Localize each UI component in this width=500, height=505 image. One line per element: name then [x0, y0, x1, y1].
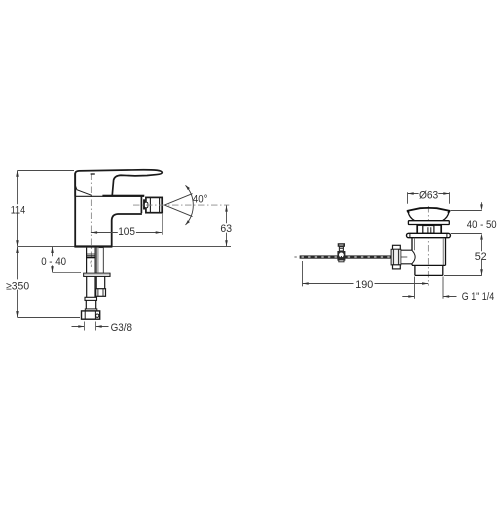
svg-text:40°: 40°: [193, 193, 208, 205]
aerator horizontal centerline: [133, 204, 229, 206]
dim 52 extension bottom: [444, 275, 482, 277]
dim 40-50 arrows: [481, 202, 483, 205]
lower tube left wall: [86, 276, 88, 297]
drain body bottom: [412, 264, 446, 266]
clamp slit: [340, 256, 342, 258]
spray fan upper line: [164, 194, 192, 206]
crown top line: [417, 224, 442, 226]
lower tube right wall: [94, 276, 96, 297]
flange 2: [407, 233, 451, 237]
dim 0-40 extension: [53, 272, 82, 274]
dim 190 extension left: [302, 261, 304, 286]
hex nut facet lines: [85, 311, 95, 319]
dim 0-40 line: [52, 247, 54, 272]
clamp body: [337, 251, 345, 261]
svg-text:0 - 40: 0 - 40: [41, 256, 66, 268]
drain nut body: [391, 249, 401, 264]
dim 114 line: [17, 171, 19, 247]
crown middle slit: [428, 227, 431, 233]
svg-text:G 1" 1/4: G 1" 1/4: [462, 291, 494, 303]
dim >=350 extension bottom: [18, 317, 81, 319]
dim 40-50 extension bottom: [451, 233, 482, 235]
drain body inner wall right: [442, 238, 444, 265]
svg-text:G3/8: G3/8: [111, 322, 132, 334]
port to body: [401, 250, 412, 264]
tube below collar left: [85, 300, 87, 309]
right hose below plate: [96, 276, 105, 288]
drain body inner wall left: [413, 238, 415, 250]
washer plate: [84, 273, 110, 276]
flange 1: [408, 221, 449, 225]
rod left centerline tick: [294, 256, 296, 258]
fitting facet lines: [98, 289, 103, 296]
plug cap top edge: [407, 208, 450, 211]
collar: [85, 297, 97, 300]
svg-text:190: 190: [355, 279, 373, 291]
dim 105 line: [91, 232, 162, 234]
rod: [300, 255, 392, 258]
spout underside: [112, 214, 142, 246]
aerator body: [146, 197, 162, 212]
svg-text:≥350: ≥350: [6, 280, 29, 292]
drain nut top cap: [393, 245, 401, 249]
right hose end fitting: [96, 289, 106, 297]
tail walls: [415, 265, 443, 275]
rod white dashes: [302, 256, 392, 258]
tube below collar right: [95, 300, 97, 309]
aerator ball joint: [144, 202, 148, 208]
drain nut bottom cap: [393, 265, 401, 269]
hose tube above plate: [96, 248, 103, 274]
body bottom thick: [74, 245, 112, 247]
body top line: [75, 195, 144, 197]
shank centerline dash: [90, 262, 92, 264]
step ring: [85, 309, 97, 311]
clamp neck: [339, 247, 343, 251]
deck line: [18, 246, 232, 248]
shank left wall: [86, 248, 88, 273]
plug cap left tip: [407, 210, 409, 213]
dim G3/8 arrows: [72, 326, 109, 328]
svg-text:105: 105: [118, 226, 135, 238]
crown left wall: [416, 225, 418, 234]
svg-text:40 - 50: 40 - 50: [467, 219, 497, 231]
drain centerline: [427, 206, 429, 286]
drain body right wall: [445, 238, 447, 265]
aerator inner line 1: [149, 198, 151, 213]
dim O63 line: [408, 193, 450, 195]
dim 40-50 extension top: [451, 210, 482, 212]
spray fan lower line: [164, 205, 192, 217]
hex nut hole: [96, 314, 99, 317]
aerator connector: [143, 199, 145, 209]
body left edge: [74, 173, 76, 246]
plug neck left curve: [408, 213, 414, 221]
crown middle block: [423, 226, 434, 234]
handle lever: [75, 170, 162, 197]
dim G1-1/4 arrows: [402, 296, 456, 298]
faucet centerline: [90, 174, 92, 268]
drain nut facets: [392, 250, 401, 265]
dim 190 line: [303, 283, 429, 285]
dim O63 legs: [408, 192, 450, 203]
clamp bottom notch: [339, 260, 344, 262]
rod centerline through nut: [392, 256, 407, 258]
handle skirt line: [75, 185, 92, 195]
fan arc arrowhead top: [186, 185, 190, 190]
svg-text:63: 63: [220, 223, 232, 235]
svg-text:114: 114: [11, 204, 25, 216]
fan arc arrowhead bottom: [186, 220, 190, 225]
drain body left wall: [411, 238, 413, 265]
port inner arc: [412, 250, 415, 263]
spout right edge: [140, 196, 142, 213]
dim G1-1/4 legs: [415, 277, 444, 299]
plug neck right curve: [443, 213, 449, 221]
dim 114 extension top: [18, 170, 75, 172]
dim >=350 line: [17, 247, 19, 317]
dim 105 extension right: [162, 214, 164, 235]
tail bottom: [415, 274, 443, 276]
svg-text:Ø63: Ø63: [419, 190, 438, 202]
crown right wall: [440, 225, 442, 234]
dim G3/8 extension ticks: [85, 322, 96, 331]
spray fan arc: [186, 185, 194, 225]
clamp top cap: [338, 243, 345, 247]
shank right wall: [94, 248, 96, 273]
dim 63 line: [226, 205, 228, 246]
handle dot marker: [91, 173, 95, 175]
clamp circle: [339, 253, 344, 258]
cartridge dome thick line: [102, 195, 144, 197]
dim 52 line: [481, 259, 483, 275]
svg-text:52: 52: [475, 251, 487, 263]
hex nut G3/8: [82, 311, 100, 319]
plug cap right tip: [448, 210, 450, 213]
aerator inner line 2: [159, 198, 161, 213]
shank joint lines: [87, 254, 96, 255]
